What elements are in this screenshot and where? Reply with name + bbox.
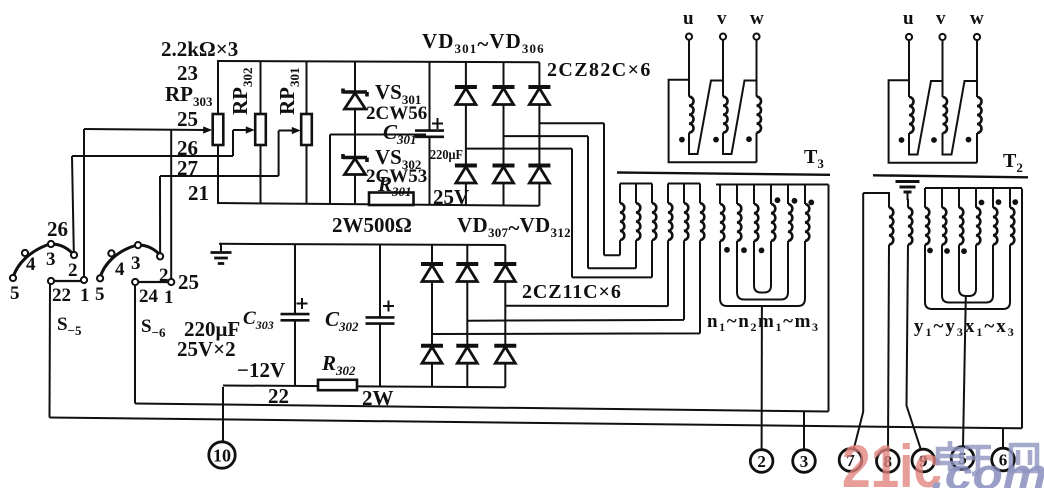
svg-text:1: 1 xyxy=(164,287,174,308)
svg-text:R302: R302 xyxy=(321,351,356,378)
svg-text:T2: T2 xyxy=(1003,150,1023,175)
svg-text:S−5: S−5 xyxy=(57,314,82,338)
svg-text:2.2kΩ×3: 2.2kΩ×3 xyxy=(161,37,238,61)
svg-text:25V: 25V xyxy=(433,185,469,209)
svg-text:S−6: S−6 xyxy=(141,316,166,340)
svg-text:3: 3 xyxy=(46,249,56,270)
svg-text:T3: T3 xyxy=(804,146,824,171)
svg-text:2: 2 xyxy=(757,452,766,471)
svg-text:v: v xyxy=(936,8,946,29)
svg-text:21: 21 xyxy=(188,181,209,205)
svg-text:n1~n2m1~m3: n1~n2m1~m3 xyxy=(707,311,820,334)
svg-text:2CZ82C×6: 2CZ82C×6 xyxy=(547,59,652,81)
svg-text:10: 10 xyxy=(213,446,231,466)
svg-text:u: u xyxy=(903,8,914,29)
svg-text:22: 22 xyxy=(52,285,71,306)
svg-text:−12V: −12V xyxy=(237,358,285,382)
svg-text:25V×2: 25V×2 xyxy=(177,337,236,361)
svg-text:27: 27 xyxy=(177,156,198,180)
svg-text:RP303: RP303 xyxy=(165,82,213,109)
svg-text:24: 24 xyxy=(139,286,159,307)
svg-text:v: v xyxy=(717,8,727,29)
svg-text:VD307~VD312: VD307~VD312 xyxy=(457,213,571,240)
svg-text:3: 3 xyxy=(131,253,141,274)
svg-text:21ic: 21ic xyxy=(842,433,942,488)
svg-text:u: u xyxy=(683,8,694,29)
svg-text:4: 4 xyxy=(26,254,36,275)
svg-text:22: 22 xyxy=(268,384,289,408)
svg-text:4: 4 xyxy=(115,259,125,280)
svg-text:C302: C302 xyxy=(325,307,359,334)
svg-text:RP302: RP302 xyxy=(228,68,255,116)
svg-text:y1~y3x1~x3: y1~y3x1~x3 xyxy=(914,316,1016,339)
svg-text:2: 2 xyxy=(159,265,169,286)
svg-text:w: w xyxy=(970,8,984,29)
svg-text:RP301: RP301 xyxy=(275,68,302,116)
svg-text:3: 3 xyxy=(800,452,809,471)
svg-text:220μF: 220μF xyxy=(430,148,463,163)
svg-text:C303: C303 xyxy=(243,308,274,332)
svg-text:w: w xyxy=(750,8,764,29)
svg-text:VD301~VD306: VD301~VD306 xyxy=(422,29,545,56)
svg-text:2W: 2W xyxy=(362,386,394,410)
svg-text:26: 26 xyxy=(47,217,68,241)
svg-text:C301: C301 xyxy=(383,120,417,147)
svg-text:1: 1 xyxy=(80,285,90,306)
svg-text:25: 25 xyxy=(178,270,199,294)
svg-text:2W500Ω: 2W500Ω xyxy=(332,213,412,237)
svg-text:2: 2 xyxy=(68,260,78,281)
svg-text:25: 25 xyxy=(177,107,198,131)
svg-text:2CZ11C×6: 2CZ11C×6 xyxy=(522,281,622,303)
svg-text:5: 5 xyxy=(95,284,105,305)
svg-text:5: 5 xyxy=(10,283,20,304)
